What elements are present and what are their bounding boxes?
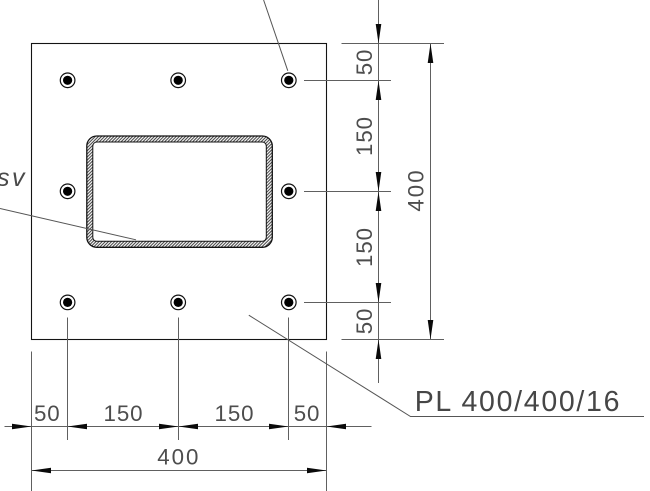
arrow right at plate left edge	[12, 424, 32, 430]
bolt hole top-middle	[171, 73, 186, 88]
arrow left at 400 left end	[32, 468, 52, 474]
extension line right of middle bolt row	[304, 191, 391, 193]
svg-text:150: 150	[352, 116, 377, 156]
svg-text:150: 150	[104, 401, 144, 426]
extension line right of bottom bolt row	[304, 302, 391, 304]
arrow down at bottom bolt row	[376, 283, 382, 303]
arrow left at plate right edge	[327, 424, 347, 430]
bolt hole top-left	[60, 73, 75, 88]
RHS tube wall hatching	[87, 136, 273, 247]
arrow left at left bolt column	[68, 424, 88, 430]
svg-text:sv: sv	[0, 164, 27, 192]
bolt hole middle-left	[60, 184, 75, 199]
extension line below left bolt column	[67, 318, 69, 441]
extension line right of plate top edge	[342, 43, 445, 45]
svg-text:50: 50	[352, 308, 377, 335]
arrow up at middle bolt row	[376, 192, 382, 212]
bolt hole middle-right	[282, 184, 297, 199]
arrow down at 400 bottom	[428, 320, 434, 340]
arrow right at right bolt column	[269, 424, 289, 430]
arrow right at middle bolt column	[159, 424, 179, 430]
tube outer contour	[87, 136, 272, 247]
vertical dimension line 50/150/150/50	[378, 0, 380, 383]
extension line below middle bolt column	[178, 318, 180, 441]
extension line below plate left edge	[31, 352, 33, 491]
horizontal overall dimension line 400	[32, 470, 327, 472]
leader from sv note to tube wall	[0, 209, 136, 240]
bolt hole top-right	[282, 73, 297, 88]
arrow right at 400 right end	[307, 468, 327, 474]
tube inner contour	[93, 142, 266, 241]
svg-text:400: 400	[404, 168, 429, 211]
arrow down at plate top	[376, 24, 382, 44]
horizontal dimension line 50/150/150/50	[5, 426, 372, 428]
svg-text:50: 50	[294, 401, 321, 426]
svg-text:400: 400	[157, 445, 200, 470]
plate outline PL 400/400/16	[32, 44, 327, 340]
bolt hole bottom-left	[60, 295, 75, 310]
svg-text:50: 50	[352, 49, 377, 76]
extension line below right bolt column	[288, 318, 290, 441]
svg-text:150: 150	[215, 401, 255, 426]
arrow up at plate bottom	[376, 340, 382, 360]
svg-text:150: 150	[352, 227, 377, 267]
arrow up at top bolt row	[376, 81, 382, 101]
extension line right of plate bottom edge	[342, 339, 445, 341]
leader to top-right bolt	[264, 0, 288, 71]
arrow left at middle bolt column	[179, 424, 199, 430]
vertical overall dimension line 400	[430, 44, 432, 340]
bolt hole bottom-right	[282, 295, 297, 310]
svg-text:PL 400/400/16: PL 400/400/16	[415, 386, 621, 418]
extension line right of top bolt row	[304, 80, 391, 82]
leader from plate to PL label	[249, 315, 644, 416]
svg-text:50: 50	[34, 401, 61, 426]
extension line below plate right edge	[326, 352, 328, 491]
arrow down at middle bolt row	[376, 172, 382, 192]
arrow up at 400 top	[428, 44, 434, 64]
bolt hole bottom-middle	[171, 295, 186, 310]
